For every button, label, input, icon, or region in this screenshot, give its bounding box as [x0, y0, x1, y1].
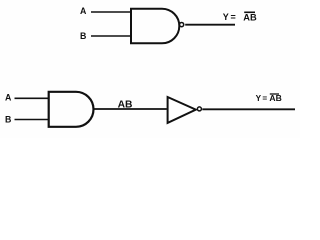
- svg-text:A: A: [80, 6, 87, 16]
- svg-text:=: =: [231, 12, 236, 22]
- svg-text:AB: AB: [118, 100, 133, 111]
- svg-text:A: A: [5, 92, 12, 102]
- svg-text:B: B: [80, 31, 86, 41]
- svg-text:AB: AB: [269, 93, 281, 103]
- svg-text:Y: Y: [223, 12, 229, 22]
- svg-text:AB: AB: [243, 12, 257, 22]
- svg-text:Y: Y: [256, 94, 262, 103]
- svg-text:=: =: [262, 94, 267, 103]
- svg-text:B: B: [5, 114, 11, 124]
